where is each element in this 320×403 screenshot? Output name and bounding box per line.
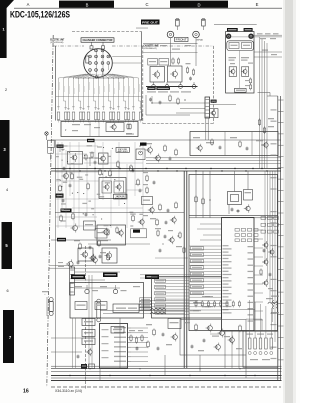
edge tick 14 (278, 246, 284, 248)
res pair top (172, 59, 174, 63)
connector CN201 pin 4 (206, 109, 209, 111)
wire CN201 right (210, 104, 236, 106)
tuner divider (239, 51, 241, 89)
wire tuner right 5 (254, 56, 282, 58)
tuner FE sub L (229, 43, 239, 49)
column band D (170, 1, 228, 8)
wire mesh h5 (126, 189, 143, 191)
IC501 pin wire 12 (190, 280, 222, 282)
small box C40b (84, 221, 96, 230)
cassette small parts (149, 98, 152, 100)
servo inner parts (129, 125, 131, 129)
resistor R807 (94, 112, 97, 120)
R202 labeled box (159, 59, 169, 66)
IC501 pin wire 21 (140, 309, 222, 311)
IC501 pin wire 9 (190, 271, 222, 273)
junction 25 (140, 152, 141, 153)
amp top rails (100, 310, 185, 312)
edge tick 15 (278, 257, 284, 259)
wire mesh v12 (134, 142, 136, 196)
tuner transistor box Q301 (229, 67, 236, 77)
page edge shadow right (283, 0, 296, 403)
resistor R806 (87, 112, 90, 120)
IC501 pin wire 22 (190, 312, 222, 314)
border corner wedge (0, 0, 14, 58)
capacitor C214 (189, 77, 192, 79)
callout label LL18 (140, 301, 152, 304)
wire mesh v11 (126, 164, 128, 228)
label box CHANGER CONNECTOR (81, 38, 114, 42)
driver box (180, 320, 246, 356)
IC501 right pin 6 (254, 274, 263, 276)
jack J202 body (193, 31, 200, 38)
wire CN3 right (75, 271, 121, 273)
connector J1 tab right (102, 46, 105, 49)
connector J1 pin 10 (107, 62, 110, 65)
center cluster C (142, 197, 153, 205)
label box TUNER (244, 28, 253, 32)
IC501 right pin 7 (254, 283, 263, 285)
wire connector pin fan 1 (59, 74, 87, 110)
svg-text:2: 2 (5, 88, 7, 92)
wire mesh v1 (61, 142, 63, 210)
callout B-L (82, 338, 95, 345)
wire mesh v4 (73, 156, 75, 228)
tuner unit top line (214, 24, 257, 26)
trans Q10 (64, 174, 69, 179)
main bus double line A (51, 168, 281, 170)
connector pill 2 (97, 299, 101, 303)
junction 23 (101, 218, 102, 219)
connector CN201 pin 5 (206, 113, 209, 115)
connector J1 pin 7 (89, 62, 92, 65)
wire connector pin fan 15 (109, 74, 129, 110)
wire right column low 4 (272, 171, 274, 322)
wire right column low 2 (267, 171, 269, 282)
small res pair (85, 155, 87, 159)
resistor R809 (102, 112, 105, 120)
right bus line 2 (146, 160, 281, 162)
mute transistor box Q202 (150, 67, 165, 83)
wire mesh h8 (56, 216, 98, 218)
IC501 pin wire 8 (190, 267, 222, 269)
junction 15 (111, 174, 112, 175)
IC501 pin wire 11 (140, 277, 222, 279)
cassette unit boundary right (dash) (212, 46, 214, 124)
wire crystal up (234, 171, 236, 192)
IC601 pin wire 6 (131, 351, 148, 353)
wire connector pin fan 2 (64, 74, 88, 110)
edge tick 21 (278, 325, 284, 327)
IC501 right pin 3 (254, 247, 263, 249)
junction 17 (62, 160, 63, 161)
pre-syscon cluster (157, 231, 159, 235)
svg-text:GND: GND (196, 40, 204, 42)
svg-text:X34-3110-xx (1/4): X34-3110-xx (1/4) (55, 389, 82, 393)
edge tick 8 (278, 178, 284, 180)
front unit boundary dash lower (85, 318, 87, 390)
svg-text:AMPLIFIER: AMPLIFIER (118, 150, 129, 153)
label box F.AMP C (103, 273, 118, 278)
row band 7 (3, 310, 14, 363)
label box B1 (57, 145, 64, 148)
resistor R801 (64, 112, 67, 120)
center cluster A (148, 148, 153, 153)
wire mesh h7 (72, 207, 143, 209)
jack J302 body (248, 34, 253, 39)
wire right column low 3 (269, 171, 271, 302)
electric unit box right (141, 32, 143, 121)
edge tick 5 (278, 144, 284, 146)
mute transistor box Q203 (168, 66, 183, 82)
resistor R805 (82, 112, 85, 120)
junction 22 (77, 192, 78, 193)
bottom-left parts (79, 244, 82, 249)
wire connector pin fan 5 (79, 74, 93, 110)
transistor Q501 (246, 206, 250, 210)
callout A-R (82, 330, 95, 337)
junction 9 (106, 176, 107, 177)
svg-text:(X25-3110-00): (X25-3110-00) (50, 42, 63, 44)
tape head amp box (99, 178, 126, 199)
CN3 pin 4 (70, 282, 74, 284)
callout label L5 (191, 259, 204, 262)
terminal lug 3 (179, 85, 183, 89)
amp box A (68, 152, 83, 165)
cluster wires 1 (56, 145, 68, 147)
volume inner box 3 (95, 302, 107, 310)
junction 7 (67, 161, 68, 162)
wire connector pin fan 8 (94, 74, 98, 110)
volume inner labels (190, 300, 198, 301)
resistor network zigzag 2 (150, 312, 166, 314)
connector J1 tab left (90, 46, 93, 49)
key matrix resistors (235, 229, 239, 232)
IC501 pin wire 5 (190, 258, 222, 260)
edge tick 19 (278, 302, 284, 304)
filter resistor col 5 (270, 338, 273, 349)
transistor Q203 (172, 71, 177, 76)
amp right resistors (130, 336, 132, 340)
label box MOUNT A (147, 87, 155, 90)
wire bl h2 (49, 265, 184, 267)
IC501 inner right labels (248, 246, 254, 247)
label box MOUNT B (156, 87, 170, 90)
transistor box 2 (102, 248, 117, 263)
resistor column R212 (192, 70, 194, 74)
IC501 right pin 11 (254, 319, 263, 321)
IC501 pin wire 19 (140, 303, 222, 305)
resistor R813 (124, 112, 127, 120)
right column parts (258, 120, 260, 124)
row band 3 (0, 120, 10, 178)
svg-text:PRE OUT: PRE OUT (142, 20, 159, 24)
connector J1 pin 2 (101, 49, 104, 52)
cassette top rail (143, 43, 198, 45)
tuner resistor col (249, 79, 251, 83)
IC501 pin wire 20 (140, 306, 222, 308)
wire connector pin fan 16 (110, 74, 133, 110)
edge tick 4 (278, 133, 284, 135)
verticals to bus (99, 368, 101, 381)
edge tick 7 (278, 167, 284, 169)
connector J1 through wire L (95, 49, 97, 78)
black box pair bottom-left (81, 364, 87, 369)
jack J301 body (226, 34, 231, 39)
wire cassette to connector bar (151, 96, 153, 103)
svg-text:FRONT: FRONT (176, 39, 188, 42)
IC501 pin wire 3 (190, 251, 222, 253)
connector J1 pin 14 (95, 76, 98, 79)
IC601 pin wire 8 (131, 361, 148, 363)
left rail (55, 140, 57, 368)
capacitor C502 (237, 210, 240, 212)
wire connector pin fan 14 (107, 74, 126, 110)
svg-text:16: 16 (23, 388, 29, 394)
pre-MCU wires (195, 171, 197, 218)
IF block internals (224, 132, 226, 156)
resistor R803 (72, 112, 75, 120)
cassette unit boundary bottom (dash) (143, 123, 214, 125)
CN3 pin 3 (70, 278, 74, 280)
right side parts of MCU (264, 260, 268, 264)
edge tick 24 (278, 359, 284, 361)
center cluster B (146, 176, 148, 180)
callout A-L (82, 319, 95, 326)
volume control box IC301 (70, 283, 144, 319)
wire mesh v9 (110, 150, 112, 228)
connector J1 body (84, 49, 113, 78)
mount text row (147, 91, 156, 92)
connector J1 key (86, 56, 89, 63)
callout label L3 (191, 253, 204, 256)
syscon pin wires (155, 280, 189, 282)
label box MUTE (56, 194, 64, 198)
edge tick 1 (278, 99, 284, 101)
junction 24 (118, 167, 119, 168)
wire mesh v7 (94, 142, 96, 228)
wire antenna right 2 (231, 36, 248, 38)
small connector CN3 (70, 267, 75, 295)
resistor R802 (67, 112, 70, 120)
electric unit box left (55, 46, 57, 121)
IC501 pin wire 1 (190, 245, 222, 247)
resistor R804 (79, 112, 82, 120)
connector J1 pin 5 (101, 55, 104, 58)
junction 5 (62, 149, 63, 150)
terminal lug 4 (192, 85, 196, 89)
row band 5 (2, 222, 13, 269)
syscon callouts (155, 279, 166, 282)
bus2 upper wires (200, 223, 222, 225)
label box P1 (57, 238, 66, 242)
IC601 pin wire 5 (131, 346, 148, 348)
tuner unit box (226, 32, 254, 94)
junction 14 (72, 193, 73, 194)
antenna input symbol (45, 132, 48, 135)
resistor R812 (117, 112, 120, 120)
crystal X1 inner (231, 195, 239, 202)
junction 8 (110, 225, 111, 226)
volume top labels (75, 286, 82, 287)
filter resistor col 4 (265, 338, 268, 349)
bottom bus 4 (51, 375, 282, 377)
cassette unit boundary left (dash) (142, 46, 144, 124)
filter resistor col 1 (248, 338, 251, 349)
wire mesh h3 (56, 171, 100, 173)
power transistor box (78, 248, 93, 261)
driver transistor Q601 (208, 326, 213, 331)
svg-text:AMPLIFIER: AMPLIFIER (115, 197, 126, 200)
svg-text:ELECTRIC UNIT: ELECTRIC UNIT (50, 38, 64, 41)
wire connector pin fan 10 (101, 74, 104, 110)
callout label L15 (191, 291, 204, 294)
resistor R810 (109, 112, 112, 120)
wire mesh v0 (57, 142, 59, 228)
edge tick 6 (278, 156, 284, 158)
power amp IC601 box (100, 324, 128, 369)
wire tab left up (91, 42, 93, 46)
cluster above sysbox (133, 230, 140, 233)
connector J1 pin 4 (95, 55, 98, 58)
wire bl h1 (51, 239, 111, 241)
svg-text:A: A (27, 2, 30, 7)
IC601 pin ticks (128, 327, 132, 329)
connector CN201 pin 3 (206, 106, 209, 108)
junction 0 (84, 155, 85, 156)
wire drv to right (246, 318, 262, 320)
edge tick 18 (278, 291, 284, 293)
svg-text:6: 6 (6, 289, 8, 293)
vertical zigzag R array (272, 300, 274, 309)
R201 labeled box (148, 59, 158, 66)
wire connector pin fan 3 (69, 74, 90, 110)
wire connector pin fan 6 (84, 74, 95, 110)
wire connector pin fan 7 (89, 74, 96, 110)
lower amp box (97, 225, 126, 245)
coil L601 (268, 302, 278, 304)
edge tick 13 (278, 235, 284, 237)
wire mesh v6 (86, 160, 88, 215)
junction 16 (103, 147, 104, 148)
trans C40 (73, 226, 78, 231)
amp left vertical pair (88, 275, 90, 368)
tuner FE sub R (242, 43, 252, 49)
tuner transistor box Q302 (242, 67, 249, 77)
volume inner box 1 (113, 304, 139, 313)
resistor R811 (112, 112, 115, 120)
IC601 pin wire 2 (131, 332, 148, 334)
changer dashed bracket top (72, 31, 142, 33)
connector J1 pin 13 (101, 69, 104, 72)
label box FRONT (175, 37, 189, 41)
IC501 pin wire 7 (190, 264, 222, 266)
svg-text:(X28-2680-02): (X28-2680-02) (144, 48, 157, 50)
IC601 pin wire 3 (131, 337, 148, 339)
filter resistor col 2 (254, 338, 257, 349)
connector J1 pin stems (89, 71, 91, 76)
right page edge double line (277, 96, 279, 380)
label near fuse (42, 291, 49, 292)
callout label LL17 (140, 298, 152, 301)
label box ANT (227, 28, 238, 32)
wire mesh v8 (102, 142, 104, 200)
ceramic filter CF1 (244, 190, 253, 201)
rounded module (136, 149, 145, 160)
front unit boundary dash upper (85, 246, 87, 283)
wire mesh h4 (56, 180, 100, 182)
bottom row parts (60, 216, 63, 221)
IC601 pin wire 7 (131, 356, 148, 358)
wire connector pin fan 9 (98, 74, 101, 110)
driver transistor Q603 (230, 338, 235, 343)
mid-bottom parts (168, 319, 181, 329)
callout label L1 (191, 247, 204, 250)
connector J1 pin 11 (89, 69, 92, 72)
label box TAPE AMP (114, 194, 128, 199)
wire mesh v3 (69, 142, 71, 196)
bottom-right filter box (243, 331, 278, 367)
edge tick 11 (278, 212, 284, 214)
junction 4 (60, 180, 61, 181)
callout label LL19 (140, 304, 152, 307)
callout label L13 (191, 285, 204, 288)
jack J201 body (167, 31, 174, 38)
volume VR1 (85, 289, 89, 293)
wire mesh v10 (118, 142, 120, 206)
edge tick 17 (278, 280, 284, 282)
IC501 right pin 2 (254, 238, 263, 240)
driver parts (195, 325, 198, 330)
edge tick 3 (278, 122, 284, 124)
tape head amp inner L (102, 181, 112, 193)
center cluster D (150, 218, 156, 219)
CN3 pin 2 (70, 273, 74, 275)
wire mesh v5 (78, 142, 80, 228)
junction 1 (112, 148, 113, 149)
pre-out ground bar (146, 86, 198, 88)
wire mesh h6 (56, 198, 100, 200)
transistor Q801 (112, 125, 116, 129)
connector J1 pin 12 (95, 69, 98, 72)
wire mesh h0 (56, 145, 99, 147)
resistor network zigzag 1 (150, 308, 166, 310)
servo inner module box (106, 123, 124, 132)
wire antenna right 1 (254, 34, 282, 36)
junction dots row (73, 78, 74, 79)
edge tick 10 (278, 201, 284, 203)
callout label L9 (191, 272, 204, 275)
cap row above driver (195, 302, 197, 306)
connector CN201 pin 2 (206, 102, 209, 104)
servo box internals (72, 124, 80, 125)
bottom bus 2 (51, 368, 282, 370)
volume inner box 2 (75, 302, 87, 310)
svg-text:E: E (256, 2, 259, 7)
amp left wires (72, 318, 74, 368)
wire vol to right (222, 309, 255, 311)
label box F.AMP R (145, 275, 159, 280)
wire right column 3 (264, 41, 266, 169)
system connector box (152, 277, 222, 318)
junction 13 (83, 213, 84, 214)
right bus line 1 (146, 157, 281, 159)
bus under servo (51, 139, 281, 141)
IC501 pin wire 15 (190, 290, 222, 292)
CN3 pin 5 (70, 287, 74, 289)
IC501 pin wire 14 (190, 287, 222, 289)
svg-text:CASSETTE UNIT: CASSETTE UNIT (144, 45, 159, 48)
